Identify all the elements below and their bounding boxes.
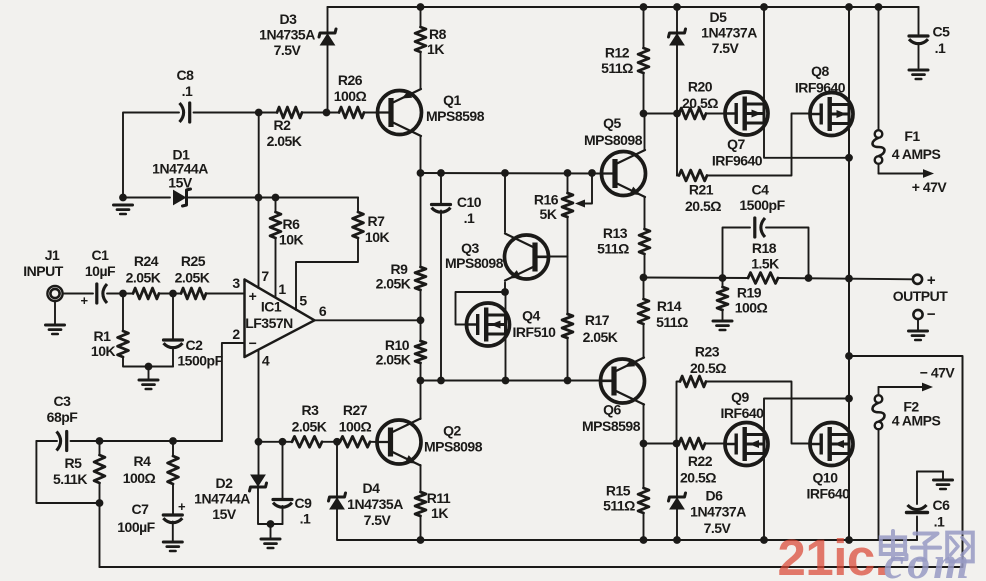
svg-text:R22: R22 [688, 453, 713, 469]
svg-text:−: − [927, 306, 936, 323]
zener diode D3 [319, 29, 336, 45]
label C1 10µF [85, 263, 116, 279]
ground [909, 70, 928, 79]
label D3 1N4735A [259, 27, 315, 43]
wire [763, 7, 765, 104]
wire [172, 522, 174, 542]
junction [673, 3, 681, 11]
capacitor C9 [273, 500, 292, 508]
resistor R1 [118, 331, 129, 357]
junction [96, 437, 104, 445]
wire [643, 404, 645, 444]
wire [258, 198, 260, 289]
svg-text:C10: C10 [457, 194, 482, 210]
svg-text:1N4735A: 1N4735A [347, 496, 403, 512]
label R19 100Ω [735, 300, 768, 316]
label Q9 IRF640 [721, 405, 765, 421]
svg-text:.1: .1 [464, 210, 475, 226]
zener diode D2 [250, 475, 267, 491]
svg-text:D6: D6 [706, 488, 724, 504]
svg-text:20.5Ω: 20.5Ω [685, 198, 721, 214]
wire [420, 516, 422, 540]
label R16 5K [540, 206, 557, 222]
capacitor C8 [180, 103, 190, 122]
svg-text:100µF: 100µF [117, 519, 155, 535]
label R14 511Ω [656, 314, 688, 330]
svg-text:511Ω: 511Ω [603, 498, 635, 514]
svg-text:7: 7 [261, 268, 269, 284]
transistor Q1 [378, 89, 422, 136]
wire [878, 7, 880, 130]
capacitor C3 [57, 432, 67, 451]
label R27 100Ω [339, 419, 372, 435]
wire [643, 513, 645, 540]
junction [119, 194, 127, 202]
svg-text:C9: C9 [295, 495, 313, 511]
junction [169, 437, 177, 445]
zener diode D1 [174, 189, 191, 206]
label R1 R1 [94, 328, 112, 344]
label C5 C5 [933, 24, 951, 40]
wire [99, 503, 101, 567]
label R19 R19 [737, 285, 762, 301]
label R21 20.5Ω [685, 198, 721, 214]
label Q2 MPS8098 [424, 439, 483, 455]
wire [420, 173, 422, 267]
svg-text:R5: R5 [65, 455, 83, 471]
junction [501, 169, 509, 177]
transistor Q3 [505, 234, 549, 281]
svg-text:+: + [927, 272, 936, 289]
junction [333, 438, 341, 446]
junction [272, 194, 280, 202]
svg-text:5K: 5K [540, 206, 557, 222]
svg-text:R12: R12 [605, 45, 630, 61]
resistor R14 [638, 299, 649, 324]
wire [677, 175, 679, 177]
op-amp + input [249, 288, 257, 304]
wire [420, 381, 422, 420]
svg-text:INPUT: INPUT [23, 263, 63, 279]
label C4 1500pF [739, 197, 785, 213]
svg-text:C7: C7 [132, 501, 150, 517]
svg-text:R6: R6 [283, 216, 301, 232]
resistor R10 [415, 341, 426, 363]
wire [420, 52, 422, 89]
label Q7 Q7 [727, 136, 745, 152]
svg-text:MPS8598: MPS8598 [426, 108, 485, 124]
label R20 R20 [688, 79, 713, 95]
svg-text:IRF640: IRF640 [807, 486, 851, 502]
svg-text:3: 3 [232, 275, 240, 291]
svg-text:D5: D5 [710, 9, 728, 25]
svg-text:10µF: 10µF [85, 263, 116, 279]
label C6 .1 [934, 514, 945, 530]
junction [437, 377, 445, 385]
wire [327, 43, 329, 113]
wire [643, 278, 645, 300]
wire [643, 324, 645, 358]
capacitor C6 [907, 505, 928, 513]
capacitor C10 [432, 205, 451, 213]
svg-text:20.5Ω: 20.5Ω [682, 95, 718, 111]
svg-text:C5: C5 [933, 24, 951, 40]
wire [537, 256, 568, 258]
junction [719, 274, 727, 282]
svg-text:R25: R25 [181, 253, 206, 269]
label R13 511Ω [597, 241, 629, 257]
label D2 15V [212, 506, 237, 522]
label D5 7.5V [712, 40, 740, 56]
wire [296, 238, 358, 310]
svg-text:2.05K: 2.05K [292, 419, 327, 435]
label Q7 IRF9640 [712, 153, 763, 169]
label R24 R24 [134, 253, 159, 269]
arrow to +47V [923, 169, 934, 178]
junction [119, 290, 127, 298]
junction [760, 3, 768, 11]
svg-text:IC1: IC1 [261, 299, 282, 315]
label R27 R27 [343, 402, 368, 418]
label R25 2.05K [175, 270, 210, 286]
label D5 D5 [710, 9, 728, 25]
wire [505, 334, 507, 381]
label R21 R21 [689, 182, 714, 198]
label Q1 MPS8598 [426, 108, 485, 124]
resistor R15 [638, 488, 649, 513]
label OUTPUT [893, 272, 949, 304]
label R7 10K [365, 229, 390, 245]
wiper arrow R16 [575, 200, 585, 208]
wire [194, 112, 278, 114]
label F2 F2 [903, 399, 919, 415]
label D4 1N4735A [347, 496, 403, 512]
label R22 R22 [688, 453, 713, 469]
label C1 C1 [92, 247, 110, 263]
label R24 2.05K [126, 270, 161, 286]
wire [706, 113, 726, 115]
wire [420, 7, 422, 27]
label +47V [912, 179, 948, 195]
wire [440, 173, 442, 205]
label D6 7.5V [704, 520, 732, 536]
ground [114, 205, 133, 214]
wire [370, 441, 382, 443]
label D2 1N4744A [194, 491, 250, 507]
wire [159, 293, 181, 295]
label C9 .1 [300, 511, 311, 527]
svg-text:R23: R23 [695, 344, 720, 360]
wire [879, 173, 927, 175]
label D4 D4 [363, 480, 381, 496]
transistor Q7 [725, 92, 768, 135]
label R5 R5 [65, 455, 83, 471]
junction [417, 3, 425, 11]
svg-text:Q2: Q2 [443, 423, 461, 439]
svg-text:68pF: 68pF [47, 409, 79, 425]
svg-text:R20: R20 [688, 79, 713, 95]
wire [122, 294, 124, 332]
wire [676, 43, 678, 176]
svg-text:1500pF: 1500pF [177, 353, 223, 369]
output + terminal [913, 275, 922, 284]
resistor R12 [638, 48, 649, 73]
output - terminal [913, 310, 922, 319]
wire [645, 277, 749, 280]
wire [643, 7, 645, 48]
op-amp IC1 [245, 280, 315, 358]
svg-text:10K: 10K [91, 343, 116, 359]
wire [766, 228, 809, 279]
wire [270, 524, 272, 538]
svg-text:+: + [249, 288, 257, 304]
wire [764, 123, 849, 158]
svg-text:1N4744A: 1N4744A [194, 491, 250, 507]
label R1 10K [91, 343, 116, 359]
label R12 R12 [605, 45, 630, 61]
watermark 21ic [778, 529, 889, 581]
op-amp - input [249, 335, 257, 351]
wire [364, 112, 381, 114]
label F1 F1 [904, 128, 920, 144]
svg-text:IRF640: IRF640 [721, 405, 765, 421]
ground [934, 480, 953, 489]
ground [46, 325, 65, 334]
wire [677, 382, 681, 444]
svg-text:− 47V: − 47V [920, 365, 956, 381]
junction [417, 377, 425, 385]
svg-text:MPS8098: MPS8098 [424, 439, 483, 455]
svg-text:100Ω: 100Ω [339, 419, 372, 435]
svg-text:IRF9640: IRF9640 [712, 153, 763, 169]
wire [123, 197, 170, 199]
junction [845, 275, 853, 283]
svg-text:1N4737A: 1N4737A [690, 504, 746, 520]
wire [421, 172, 604, 175]
label R18 1.5K [751, 256, 779, 272]
wire [567, 338, 569, 381]
wire [107, 293, 133, 295]
junction [673, 536, 681, 544]
junction [640, 440, 648, 448]
wire [123, 113, 179, 198]
label R3 2.05K [292, 419, 327, 435]
wire [420, 363, 422, 381]
svg-text:R14: R14 [657, 298, 682, 314]
label C7 C7 [132, 501, 150, 517]
junction [169, 290, 177, 298]
junction [501, 288, 509, 296]
junction [502, 377, 510, 385]
svg-text:100Ω: 100Ω [334, 88, 367, 104]
capacitor C7 [163, 515, 182, 523]
resistor R7 [353, 212, 364, 238]
label D6 D6 [706, 488, 724, 504]
wire [63, 293, 94, 295]
label INPUT [23, 263, 63, 279]
label R22 20.5Ω [680, 470, 716, 486]
label R4 R4 [134, 453, 152, 469]
label D3 D3 [280, 11, 298, 27]
wire [282, 442, 284, 500]
label F1 4 AMPS [892, 146, 941, 162]
label pin 4 [262, 353, 270, 369]
svg-text:R17: R17 [585, 312, 610, 328]
svg-text:5: 5 [299, 293, 307, 309]
zener diode D6 [669, 493, 686, 509]
label R18 R18 [752, 240, 777, 256]
label IC1 [261, 299, 282, 315]
label Q5 MPS8098 [584, 132, 643, 148]
wire [420, 136, 422, 173]
svg-text:R11: R11 [427, 490, 451, 506]
svg-text:Q7: Q7 [727, 136, 745, 152]
label R12 511Ω [601, 60, 633, 76]
wire [676, 508, 678, 541]
label R17 R17 [585, 312, 610, 328]
label C2 C2 [186, 337, 204, 353]
label Q1 Q1 [443, 92, 461, 108]
wire [420, 320, 422, 341]
wire [916, 517, 918, 541]
svg-text:15V: 15V [212, 506, 237, 522]
wire [878, 387, 880, 395]
wire [206, 293, 245, 295]
resistor R22 [679, 438, 705, 449]
svg-text:100Ω: 100Ω [735, 300, 768, 316]
wire [676, 444, 678, 498]
label C10 C10 [457, 194, 482, 210]
resistor R23 [680, 376, 706, 387]
transistor Q6 [601, 358, 645, 405]
label pin 7 [261, 268, 269, 284]
junction [417, 169, 425, 177]
ground [139, 380, 158, 389]
svg-text:20.5Ω: 20.5Ω [680, 470, 716, 486]
svg-text:2.05K: 2.05K [267, 133, 302, 149]
resistor R20 [679, 108, 706, 119]
svg-text:C1: C1 [92, 247, 110, 263]
label R20 20.5Ω [682, 95, 718, 111]
svg-text:.1: .1 [935, 40, 946, 56]
wire [705, 443, 726, 445]
junction [417, 316, 425, 324]
junction [845, 154, 853, 162]
wire [327, 7, 329, 33]
junction [145, 363, 153, 371]
label D4 7.5V [364, 512, 392, 528]
label C3 C3 [54, 393, 72, 409]
resistor R5 [94, 455, 105, 483]
label J1 [45, 247, 60, 263]
transistor Q2 [377, 419, 421, 466]
label Q2 Q2 [443, 423, 461, 439]
wire [644, 197, 646, 229]
svg-text:100Ω: 100Ω [123, 470, 156, 486]
junction [640, 3, 648, 11]
svg-text:1N4735A: 1N4735A [259, 27, 315, 43]
wire [54, 301, 56, 324]
wire [99, 441, 101, 455]
wire [420, 465, 422, 492]
svg-text:R26: R26 [338, 72, 363, 88]
wire [942, 472, 944, 480]
wire [578, 173, 592, 204]
svg-text:Q8: Q8 [811, 63, 829, 79]
capacitor C4 [755, 218, 765, 237]
label R15 511Ω [603, 498, 635, 514]
label LF357N [245, 315, 293, 331]
label R9 R9 [391, 261, 409, 277]
svg-text:D2: D2 [216, 475, 234, 491]
wire [275, 198, 277, 213]
svg-text:R4: R4 [134, 453, 152, 469]
label C6 C6 [933, 497, 951, 513]
label D1 1N4744A [152, 161, 208, 177]
resistor R17 [562, 314, 573, 338]
svg-text:OUTPUT: OUTPUT [893, 288, 949, 304]
label R23 20.5Ω [690, 360, 726, 376]
svg-text:6: 6 [319, 303, 327, 319]
label pin 2 [232, 326, 240, 342]
resistor R24 [133, 288, 159, 299]
watermark dianziwang [881, 531, 973, 561]
svg-text:20.5Ω: 20.5Ω [690, 360, 726, 376]
svg-text:7.5V: 7.5V [364, 512, 392, 528]
wire [258, 350, 260, 475]
resistor R19 [717, 287, 728, 310]
zener diode D4 [329, 493, 346, 509]
wire [644, 114, 646, 151]
wire [337, 508, 419, 541]
wire [322, 441, 340, 443]
junction [279, 438, 287, 446]
svg-text:R27: R27 [343, 402, 368, 418]
wire [421, 539, 918, 541]
label D6 1N4737A [690, 504, 746, 520]
svg-text:R15: R15 [606, 483, 631, 499]
wire [336, 442, 338, 497]
svg-text:511Ω: 511Ω [601, 60, 633, 76]
svg-text:+ 47V: + 47V [912, 179, 948, 195]
label Q4 Q4 [522, 308, 540, 324]
wire [567, 173, 569, 193]
wire [706, 382, 811, 444]
wire [918, 43, 920, 68]
junction [255, 438, 263, 446]
transistor Q10 [810, 423, 853, 466]
junction [255, 109, 263, 117]
wire [71, 440, 222, 442]
svg-text:Q6: Q6 [603, 402, 621, 418]
label R5 5.11K [53, 471, 87, 487]
label R10 R10 [385, 337, 410, 353]
transistor Q9 [725, 423, 768, 466]
label D2 D2 [216, 475, 234, 491]
junction [845, 395, 853, 403]
ground [713, 321, 732, 330]
label R2 2.05K [267, 133, 302, 149]
junction [417, 536, 425, 544]
wire [764, 399, 849, 435]
wire [36, 441, 99, 503]
svg-text:+: + [178, 499, 186, 514]
junction [673, 110, 681, 118]
label C10 .1 [464, 210, 475, 226]
wire [258, 113, 260, 198]
zener diode D5 [669, 29, 686, 45]
resistor R16 [562, 193, 573, 217]
